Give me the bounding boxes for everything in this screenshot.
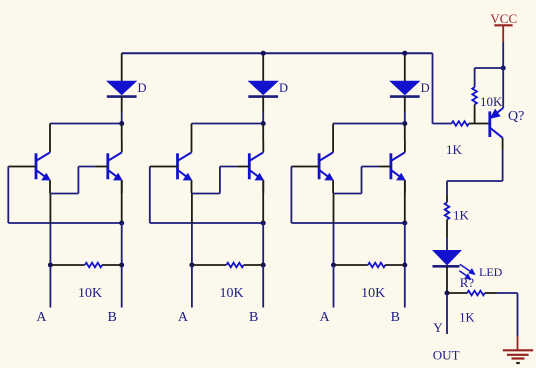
transistor Q2a xyxy=(165,141,192,193)
wire: down to ground xyxy=(517,293,519,336)
svg-text:OUT: OUT xyxy=(433,348,460,363)
svg-text:10K: 10K xyxy=(480,94,503,109)
node: loop meets B column xyxy=(402,221,407,226)
port B pin xyxy=(121,265,123,308)
transistor Q3a xyxy=(307,141,334,193)
node: loop meets B column xyxy=(261,221,266,226)
wire: left base loop xyxy=(8,166,23,168)
svg-text:D: D xyxy=(421,81,430,95)
resistor 10K pull-up xyxy=(472,87,477,104)
wire: left emitter to right base link xyxy=(334,193,362,195)
svg-text:B: B xyxy=(108,310,117,325)
svg-text:10K: 10K xyxy=(220,286,244,301)
transistor Q? (PNP) xyxy=(488,111,491,137)
svg-text:1K: 1K xyxy=(459,310,474,324)
resistor 10K between A and B xyxy=(50,264,84,266)
wire: left emitter down to resistor row xyxy=(49,193,51,224)
transistor Q3b xyxy=(378,141,405,193)
wire: right emitter down through loop node to resistor row xyxy=(262,180,264,222)
port Y pin xyxy=(446,293,448,334)
resistor R? 1K to ground xyxy=(447,292,467,294)
node under diode D2 xyxy=(262,112,264,124)
transistor Q2b xyxy=(237,141,263,193)
wire: VCC down to node xyxy=(502,42,504,68)
port A pin xyxy=(191,265,193,308)
wire: left emitter to right base link xyxy=(50,193,78,195)
wire: junction to right collector xyxy=(404,124,406,142)
wire: junction to left collector xyxy=(192,123,264,125)
svg-text:A: A xyxy=(36,310,47,325)
wire: left emitter to right base link xyxy=(192,193,220,195)
wire: left emitter down to resistor row xyxy=(191,193,193,224)
svg-text:VCC: VCC xyxy=(490,11,517,26)
node: resistor row right xyxy=(261,263,266,268)
port B pin xyxy=(262,265,264,308)
svg-text:B: B xyxy=(391,310,400,325)
diode D2 xyxy=(248,53,278,112)
svg-text:D: D xyxy=(138,81,147,95)
wire: left emitter down to resistor row xyxy=(333,193,335,224)
wire: left base loop xyxy=(291,166,306,168)
wire: rail right corner down to 1K xyxy=(432,53,434,123)
svg-text:B: B xyxy=(249,310,258,325)
node: VCC branch xyxy=(501,66,506,71)
port B pin xyxy=(404,265,406,308)
wire: collector down, left, down to 1K xyxy=(502,150,504,181)
wire: right emitter down through loop node to resistor row xyxy=(121,180,123,222)
wire: base node to transistor xyxy=(475,123,490,125)
wire: left base loop xyxy=(150,166,165,168)
svg-text:Y: Y xyxy=(433,320,443,335)
svg-text:LED: LED xyxy=(479,265,503,279)
svg-text:R?: R? xyxy=(460,275,475,290)
wire: junction to right collector xyxy=(262,124,264,142)
diode D3 xyxy=(390,53,420,112)
node under diode D3 xyxy=(404,112,406,124)
node under diode D1 xyxy=(121,112,123,124)
svg-text:D: D xyxy=(279,81,288,95)
LED xyxy=(433,251,461,265)
node: loop meets B column xyxy=(119,221,124,226)
resistor 10K between A and B xyxy=(192,264,226,266)
node: rail at D2 xyxy=(261,51,266,56)
wire: junction to right collector xyxy=(121,124,123,142)
transistor Q1b xyxy=(95,141,122,193)
wire: junction to left collector xyxy=(333,123,405,125)
node: resistor row left xyxy=(189,263,194,268)
svg-text:1K: 1K xyxy=(446,142,463,157)
svg-text:A: A xyxy=(320,310,331,325)
resistor 1K (LED series) xyxy=(446,195,448,202)
ground xyxy=(517,336,519,350)
svg-text:1K: 1K xyxy=(453,208,470,223)
node: resistor row left xyxy=(331,263,336,268)
resistor 1K series to base xyxy=(433,123,452,125)
wire to LED xyxy=(446,238,448,251)
node: resistor row right xyxy=(402,263,407,268)
resistor 10K between A and B xyxy=(334,264,368,266)
wire: junction to left collector xyxy=(50,123,122,125)
port A pin xyxy=(333,265,335,308)
node: resistor row right xyxy=(119,263,124,268)
wire: node left and down to 10K xyxy=(475,67,504,69)
transistor Q1a xyxy=(24,141,51,193)
svg-text:10K: 10K xyxy=(361,286,385,301)
node: resistor row left xyxy=(48,263,53,268)
node: LED cathode / output xyxy=(445,291,450,296)
diode D1 xyxy=(107,53,137,112)
svg-text:Q?: Q? xyxy=(508,109,524,124)
port A pin xyxy=(49,265,51,308)
top rail wire xyxy=(122,52,433,54)
svg-text:A: A xyxy=(178,310,189,325)
wire: right emitter down through loop node to resistor row xyxy=(404,180,406,222)
svg-text:10K: 10K xyxy=(78,286,102,301)
node: rail at D3 xyxy=(402,51,407,56)
